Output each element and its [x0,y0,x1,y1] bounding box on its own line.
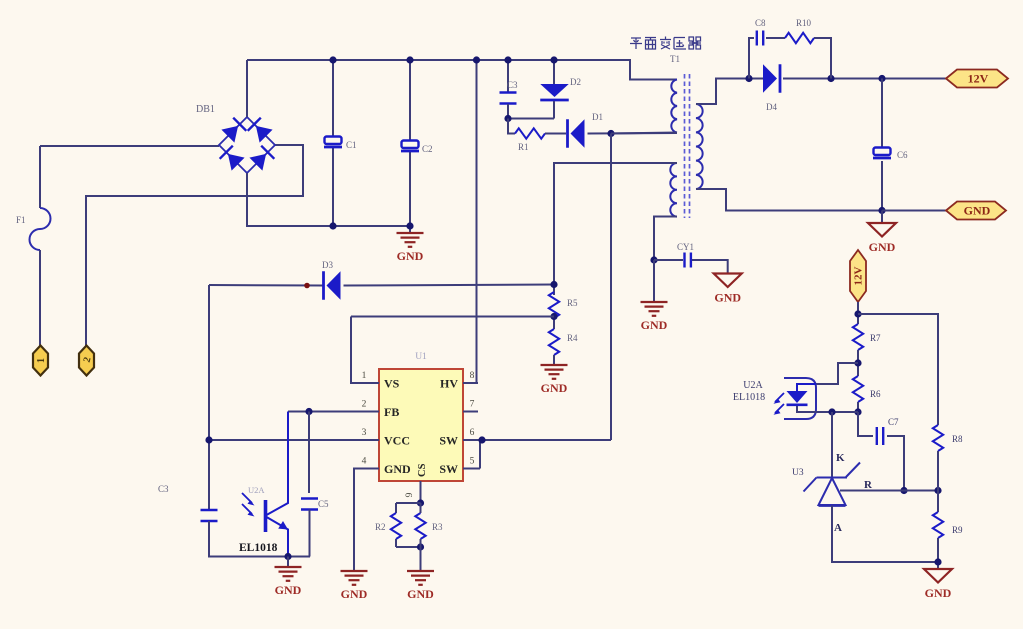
svg-text:R7: R7 [870,333,881,343]
junction [934,558,941,565]
wire D2 cathode [553,101,555,119]
junction [329,56,336,63]
transistor U3 (TL431 shunt regulator) [804,463,861,506]
svg-text:SW: SW [439,434,458,448]
resistor R4 [549,329,559,355]
wire C1 bottom [332,148,334,227]
junction [205,436,212,443]
svg-text:GND: GND [397,249,424,263]
svg-text:2: 2 [362,400,367,410]
junction [854,310,861,317]
svg-text:GND: GND [714,291,741,305]
resistor R6 [853,376,863,402]
wire VCC row to pin 3 [209,439,379,441]
wire CY1 right to chassis ground [692,260,728,274]
wire VCC cap to opto emitter rail [209,521,310,557]
svg-text:HV: HV [440,377,458,391]
svg-text:D4: D4 [766,102,777,112]
wire top bus [247,60,677,80]
wire D3 anode to R5 [344,285,555,286]
capacitor C5 [301,499,318,510]
wire bottom bus [247,173,410,226]
svg-text:GND: GND [275,583,302,597]
diode D4 [763,64,780,93]
ground chassis GND near CY1 [714,274,742,288]
svg-text:1: 1 [36,358,47,363]
wire R3 to ground [420,539,422,571]
wire C1 top [332,60,334,137]
capacitor C8 [757,31,763,46]
optocoupler U2A (phototransistor) [242,412,288,557]
junction (red) on D3 net [304,283,310,289]
svg-text:C6: C6 [897,150,908,160]
diode D1 [568,119,585,148]
resistor R8 [933,425,943,451]
wire to VS pin 1 [351,317,379,384]
wire R2 top lead [395,503,397,513]
svg-text:4: 4 [362,457,367,467]
wire to R1 [508,119,515,134]
ground GND below R4 [541,365,568,379]
svg-text:R: R [864,479,873,491]
wire CS node bottom [396,546,421,548]
capacitor C1 [324,137,342,148]
wire primary bottom lead [611,133,677,134]
wire 12V rail [783,78,946,80]
ground earth GND below transformer [641,302,668,316]
wire K to U3 [831,412,833,477]
svg-text:C1: C1 [346,140,357,150]
svg-text:C5: C5 [318,499,329,509]
svg-text:SW: SW [439,462,458,476]
capacitor C6 [873,148,891,159]
svg-text:5: 5 [470,457,475,467]
svg-text:C3: C3 [507,80,518,90]
junction [329,222,336,229]
junction [473,56,480,63]
svg-text:R8: R8 [952,434,963,444]
junction [745,75,752,82]
svg-text:T1: T1 [670,54,680,64]
wire R10 to cathode [814,38,831,79]
bridge rectifier DB1 [219,117,275,173]
connector pin 1 [33,346,48,376]
resistor R5 [549,292,559,318]
wire HV pin 8 to top bus [463,60,477,383]
svg-text:EL1018: EL1018 [733,392,765,403]
svg-text:F1: F1 [16,215,26,225]
wire C6 top [881,79,883,149]
wire C8 to R10 [766,37,785,39]
wire R6 bottom [857,402,859,412]
wire R7 to R6 [857,350,859,376]
connector pin 2 [79,346,94,376]
svg-text:GND: GND [341,587,368,601]
svg-text:R4: R4 [567,333,578,343]
wire R1 to D1 [545,133,566,135]
capacitor C3 (snubber) [500,93,517,104]
junction [900,487,907,494]
junction [827,75,834,82]
svg-text:R10: R10 [796,18,812,28]
wire GND rail to flag [882,210,946,212]
svg-text:U3: U3 [792,468,804,478]
resistor R9 [933,512,943,538]
optocoupler U2A (LED side) [774,378,859,419]
wire aux winding to R5 [554,163,677,295]
svg-text:R2: R2 [375,522,386,532]
svg-text:12V: 12V [968,72,989,86]
wire to C5 [308,412,310,494]
wire D3 cathode side [209,284,324,287]
svg-text:EL1018: EL1018 [239,542,278,554]
wire R5 to R4 [553,318,555,329]
junction [417,543,424,550]
diode D2 [540,84,569,100]
label 平面变压器 (planar transformer) [630,37,701,50]
resistor R3 [415,513,425,539]
wire CS node top [396,502,421,504]
junction [550,313,557,320]
ground chassis GND feedback [924,569,952,583]
junction [504,115,511,122]
capacitor C7 [877,427,883,445]
svg-text:R1: R1 [518,142,529,152]
wire AC line 1 to bridge [40,145,219,147]
wire to chassis ground [881,211,883,224]
junction [305,408,312,415]
junction [550,281,557,288]
resistor R2 [391,513,401,539]
svg-text:D2: D2 [570,77,581,87]
wire R2 bottom lead [395,539,397,547]
svg-text:DB1: DB1 [196,104,215,115]
svg-text:U2A: U2A [743,380,763,391]
svg-text:6: 6 [470,428,475,438]
wire AC line 2 to bridge [86,145,303,346]
svg-text:FB: FB [384,405,399,419]
svg-text:C2: C2 [422,144,433,154]
junction [934,487,941,494]
ground primary GND under C2 [397,233,424,247]
wire secondary bottom rail [696,189,882,211]
wire SW riser [610,134,612,441]
svg-text:GND: GND [541,381,568,395]
resistor R1 [515,128,545,138]
svg-text:VS: VS [384,377,400,391]
svg-text:D1: D1 [592,112,603,122]
svg-text:8: 8 [470,371,475,381]
svg-text:R3: R3 [432,522,443,532]
svg-text:D3: D3 [322,260,333,270]
ground GND below R3 [407,571,434,585]
ground chassis GND secondary [868,223,896,237]
junction [878,75,885,82]
capacitor C2 [401,141,419,152]
wire FB row [288,411,379,413]
junction [550,56,557,63]
wire R6 node to C7 [858,412,873,436]
junction [650,256,657,263]
junction [406,56,413,63]
wire R4 to ground [553,355,555,364]
capacitor C3 (VCC) [201,510,218,521]
wire SW to transformer [482,439,611,441]
wire AC line 1 lower [39,250,41,346]
wire CY1 left [654,259,683,261]
svg-text:K: K [836,452,845,464]
wire D1 to transformer primary [588,132,678,135]
junction [504,56,511,63]
junction [854,359,861,366]
diode D3 [324,271,341,300]
wire 12V flag to node [857,302,859,324]
wire to D4 anode [749,78,763,80]
svg-text:C7: C7 [888,417,899,427]
ground GND below EL1018 [275,567,302,581]
svg-text:GND: GND [925,586,952,600]
ground GND pin 4 [341,571,368,585]
svg-text:7: 7 [470,400,475,410]
wire GND pin 4 [353,469,355,571]
wire C8 left [749,38,754,79]
junction [417,499,424,506]
wire A to bottom rail [832,506,938,563]
svg-text:GND: GND [407,587,434,601]
resistor R7 [853,324,863,350]
fuse F1 [30,208,51,250]
svg-text:R6: R6 [870,389,881,399]
svg-text:1: 1 [362,371,367,381]
svg-text:C8: C8 [755,18,766,28]
junction [284,553,291,560]
IC U1 (power controller) [353,352,482,503]
junction [854,408,861,415]
power flag 12V feedback [850,250,866,302]
wire C6 bottom [881,161,883,211]
wire R9 top [937,491,939,513]
junction [828,408,835,415]
wire C2 bottom [409,150,411,233]
wire node to opto LED anode [816,363,858,384]
wire C7 to R node [887,436,904,491]
power flag GND output [946,202,1006,220]
svg-text:3: 3 [362,428,367,438]
transformer T1 [670,74,702,218]
svg-text:R9: R9 [952,525,963,535]
wire to R8 top [858,314,938,425]
svg-text:VCC: VCC [384,434,410,448]
wire R5/R4 node to VS [351,316,554,318]
wire R9 to ground [937,538,939,569]
svg-text:GND: GND [869,240,896,254]
junction [607,130,614,137]
svg-text:CS: CS [417,463,428,477]
junction [478,436,485,443]
svg-text:9: 9 [405,492,415,497]
wire R3 top lead [420,503,422,513]
svg-text:GND: GND [964,204,991,218]
svg-text:U1: U1 [415,352,427,362]
wire bridge + to top bus [246,60,248,117]
wire snubber C3 top [507,60,509,92]
resistor R10 [785,33,814,43]
wire AC line 1 upper [39,146,41,208]
capacitor CY1 [685,253,691,268]
svg-text:R5: R5 [567,298,578,308]
wire opto to ground [287,557,289,567]
wire CY1 node to earth ground [653,260,655,302]
junction [406,222,413,229]
svg-text:12V: 12V [853,266,865,285]
svg-text:A: A [834,522,842,534]
junction [878,207,885,214]
wire R reference line [840,490,938,492]
svg-text:U2A: U2A [248,485,265,495]
wire D2 anode [553,60,555,84]
wire secondary top lead [696,79,749,105]
svg-text:CY1: CY1 [677,242,694,252]
wire snubber node [508,104,554,119]
svg-text:C3: C3 [158,484,169,494]
wire VCC column [208,285,210,510]
power flag 12V output [946,70,1008,88]
wire aux winding to CY1 [654,217,677,261]
svg-text:GND: GND [384,462,411,476]
wire C5 bottom [309,510,311,557]
wire C2 top [409,60,411,141]
wire R8 bottom [937,451,939,491]
svg-text:GND: GND [641,318,668,332]
